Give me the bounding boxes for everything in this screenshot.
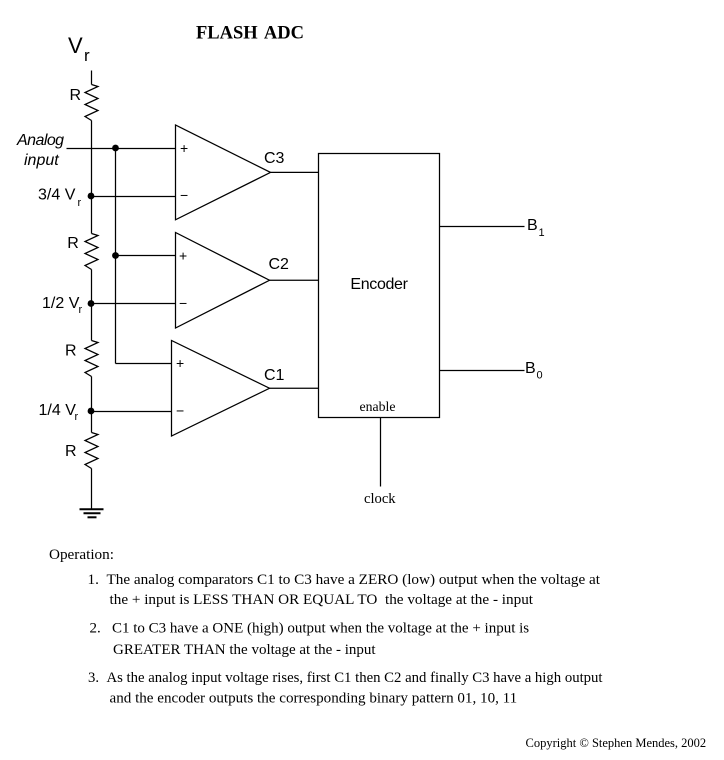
wire: 3/4 Vr to C3 minus [92,196,176,198]
node: analog input junction [112,145,119,152]
node: 1/2 Vr junction [88,300,95,307]
svg-text:3/4 V: 3/4 V [38,187,76,204]
resistor R1 [85,85,98,121]
wire: tap bus corner to C1 plus [116,363,172,365]
svg-text:1/4 V: 1/4 V [39,402,77,419]
wire: B1 output [440,226,525,228]
resistor R2 [85,234,98,270]
encoder block U1 [319,154,440,418]
node: 3/4 Vr junction [88,193,95,200]
svg-text:r: r [79,304,83,316]
svg-text:C1: C1 [264,367,285,384]
svg-text:+: + [176,355,184,371]
node: 1/4 Vr junction [88,408,95,415]
svg-text:Encoder: Encoder [350,276,408,293]
svg-text:r: r [78,197,82,209]
op-amp comparator C3 [176,125,271,220]
op-amp comparator C1 [172,341,270,437]
wire: C2 output to encoder [270,279,319,281]
svg-text:+: + [179,248,187,264]
wire: 1/4 Vr to C1 minus [92,411,172,413]
wire: Vr stub to R1 [91,71,93,85]
node: tap bus to C2 junction [112,252,119,259]
svg-text:−: − [179,295,187,311]
svg-text:R: R [65,443,77,460]
wire: C3 output to encoder [271,171,319,173]
wire: tap bus vertical (analog to C1 plus) [115,149,117,364]
svg-text:C2: C2 [269,256,290,273]
svg-text:2. C1 to C3 have a ONE (high: 2. C1 to C3 have a ONE (high) output whe… [90,621,530,637]
wire: ladder analog node to 3/4Vr node [91,149,93,197]
wire: 1/4Vr node to R4 [91,412,93,433]
svg-text:Analog: Analog [16,132,64,149]
ground [80,509,104,517]
resistor R4 [85,433,98,469]
wire: tap bus to C2 plus [116,255,176,257]
wire: R3 to 1/4Vr node [91,377,93,412]
wire: clock to enable [380,418,382,487]
svg-text:the + input is LESS THAN OR EQ: the + input is LESS THAN OR EQUAL TO the… [110,591,534,608]
svg-text:V: V [68,33,83,58]
svg-text:−: − [180,187,188,203]
svg-text:GREATER THAN the voltage at th: GREATER THAN the voltage at the - input [113,642,376,658]
wire: 1/2 Vr to C2 minus [92,303,176,305]
svg-text:+: + [180,140,188,156]
svg-text:r: r [75,411,79,423]
svg-text:R: R [70,87,82,104]
wire: 1/2Vr node to R3 [91,304,93,341]
svg-text:C3: C3 [264,150,285,167]
svg-text:R: R [67,235,79,252]
wire: R2 to 1/2Vr node [91,270,93,304]
wire: R1 to analog node [91,121,93,149]
svg-text:FLASH ADC: FLASH ADC [196,24,304,44]
svg-text:r: r [84,46,90,65]
wire: analog input horizontal [67,148,176,150]
op-amp comparator C2 [176,233,270,329]
svg-text:R: R [65,343,77,360]
svg-text:1. The analog comparators C1: 1. The analog comparators C1 to C3 have … [88,571,601,588]
svg-text:input: input [24,152,59,169]
svg-text:Operation:: Operation: [49,546,114,563]
svg-text:0: 0 [537,370,543,382]
svg-text:enable: enable [360,399,396,414]
resistor R3 [85,341,98,377]
wire: C1 output to encoder [270,387,319,389]
svg-text:3. As the analog input voltag: 3. As the analog input voltage rises, fi… [88,670,603,686]
svg-text:clock: clock [364,491,396,507]
svg-text:1/2 V: 1/2 V [42,295,80,312]
svg-text:B: B [527,217,538,234]
svg-text:1: 1 [539,227,545,239]
svg-text:and the encoder outputs the co: and the encoder outputs the correspondin… [110,690,518,706]
wire: B0 output [440,370,525,372]
svg-text:Copyright © Stephen Mendes, 20: Copyright © Stephen Mendes, 2002 [526,736,707,750]
svg-text:B: B [525,360,536,377]
wire: 3/4Vr node to R2 [91,197,93,234]
svg-text:−: − [176,403,184,419]
wire: R4 to ground [91,469,93,510]
